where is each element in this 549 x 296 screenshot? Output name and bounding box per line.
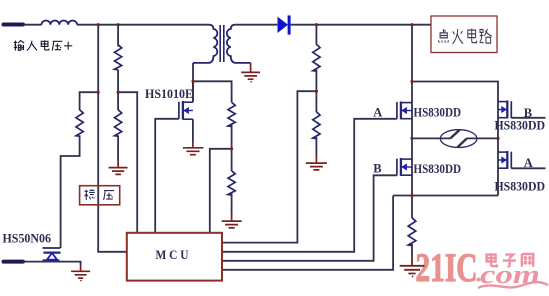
resistor R6 bbox=[313, 44, 320, 71]
wire R6 to junction bbox=[315, 70, 317, 92]
wire junction row left branch bbox=[80, 92, 99, 110]
wire R5 to junction bbox=[231, 125, 233, 149]
transistor Q2 HS1010E bbox=[179, 81, 193, 141]
transistor Q5 HS830DD top-right bbox=[498, 101, 511, 119]
wire junction to R5 column bbox=[193, 81, 232, 102]
wire junction row right branch to MCU top bbox=[118, 92, 137, 233]
wire R9 to ground bbox=[231, 193, 233, 214]
input terminal bbox=[4, 23, 24, 27]
wire x118 to R4 bbox=[117, 92, 119, 110]
resistor R3 bbox=[76, 110, 83, 137]
wire bottom bus y195.5 bbox=[222, 196, 498, 270]
label 点火电路 bbox=[439, 29, 492, 44]
wire HS1010E gate to MCU bbox=[155, 119, 179, 233]
wire column x316 top bbox=[315, 25, 317, 45]
wire bus y81.5 to right rail bbox=[412, 82, 498, 196]
wire junction to MCU right pin1 bbox=[222, 91, 316, 242]
wire junction to MCU top pin bbox=[210, 149, 232, 233]
wire R2 to junction row bbox=[117, 70, 119, 92]
wire secondary to diode bbox=[235, 24, 277, 26]
wire R3 to HS50N06 drain bbox=[61, 135, 80, 248]
label 稳压 bbox=[84, 189, 114, 200]
motor wire left bbox=[412, 137, 450, 139]
wire R4 to ground bbox=[117, 135, 119, 160]
ground secondary bbox=[241, 63, 260, 79]
wire terminal to inductor bbox=[23, 24, 42, 26]
resistor R2 bbox=[115, 45, 122, 70]
svg-text:A: A bbox=[524, 156, 533, 170]
svg-text:A: A bbox=[373, 105, 382, 119]
wire junction to R9 bbox=[231, 149, 233, 171]
wire gate B top-right stub bbox=[511, 117, 545, 119]
ground R7 bbox=[306, 156, 327, 170]
wire inductor to transformer bbox=[77, 24, 209, 26]
wire gate B bottom-left to MCU bbox=[222, 175, 397, 260]
transistor Q4 HS830DD bottom-left bbox=[397, 158, 412, 176]
svg-text:HS830DD: HS830DD bbox=[495, 118, 546, 133]
transistor Q3 HS830DD top-left bbox=[397, 102, 412, 120]
HS50N06 gate terminal bbox=[4, 260, 24, 264]
transformer T1 primary winding bbox=[193, 25, 217, 63]
svg-text:HS830DD: HS830DD bbox=[414, 161, 462, 176]
svg-text:HS830DD: HS830DD bbox=[414, 104, 462, 119]
ignition circuit box 点火电路 bbox=[431, 16, 497, 53]
svg-text:21IC: 21IC bbox=[416, 245, 478, 290]
ground R4 bbox=[109, 161, 128, 175]
svg-text:B: B bbox=[373, 162, 381, 176]
junction node dots bbox=[97, 23, 500, 197]
motor diagonal 1 bbox=[450, 130, 459, 139]
motor wire right bbox=[467, 137, 498, 139]
MCU box bbox=[127, 233, 222, 281]
wire HS50N06 gate and source bbox=[23, 262, 81, 265]
resistor R4 bbox=[115, 110, 122, 137]
label 输入电压+ bbox=[14, 40, 72, 50]
wire diode to ignition box bbox=[291, 24, 431, 26]
svg-text:HS50N06: HS50N06 bbox=[3, 230, 52, 245]
motor ellipse bbox=[440, 130, 477, 148]
inductor L1 bbox=[42, 21, 78, 25]
watermark 电子网 text bbox=[487, 253, 534, 266]
svg-text:HS830DD: HS830DD bbox=[495, 178, 546, 193]
wire R8 to ground bbox=[411, 244, 413, 258]
ground HS50N06 source bbox=[71, 265, 90, 278]
wire column x118 top bbox=[117, 25, 119, 47]
wire gate A bottom-right stub bbox=[511, 167, 545, 169]
wire column x98 down to MCU left pin bbox=[98, 25, 127, 252]
ground HS1010E source bbox=[183, 142, 203, 155]
resistor R8 bbox=[408, 218, 416, 246]
transistor Q6 HS830DD bottom-right bbox=[498, 151, 511, 169]
transistor Q7 HS50N06 bbox=[43, 248, 61, 260]
resistor R5 bbox=[228, 102, 235, 126]
motor diagonal 2 bbox=[458, 138, 467, 147]
resistor R7 bbox=[313, 112, 320, 139]
watermark 21IC logo bbox=[416, 245, 549, 290]
wire R7 to ground bbox=[315, 137, 317, 156]
transformer T1 secondary winding bbox=[227, 25, 251, 63]
ground R8 bbox=[400, 258, 425, 274]
resistor R9 bbox=[228, 171, 235, 195]
wire primary bottom to junction and HS1010E drain bbox=[192, 63, 194, 101]
wire column x412 H-bridge left rail bbox=[411, 25, 413, 218]
wire gate A top-left to MCU bbox=[222, 119, 397, 252]
wire junction to R7 bbox=[315, 91, 317, 112]
voltage regulator box 稳压 bbox=[80, 186, 120, 205]
ground R9 bbox=[222, 214, 242, 228]
svg-text:HS1010E: HS1010E bbox=[145, 86, 193, 101]
transformer T1 core bbox=[220, 25, 224, 62]
svg-text:M C U: M C U bbox=[156, 248, 189, 262]
diode D1 bbox=[278, 15, 291, 34]
